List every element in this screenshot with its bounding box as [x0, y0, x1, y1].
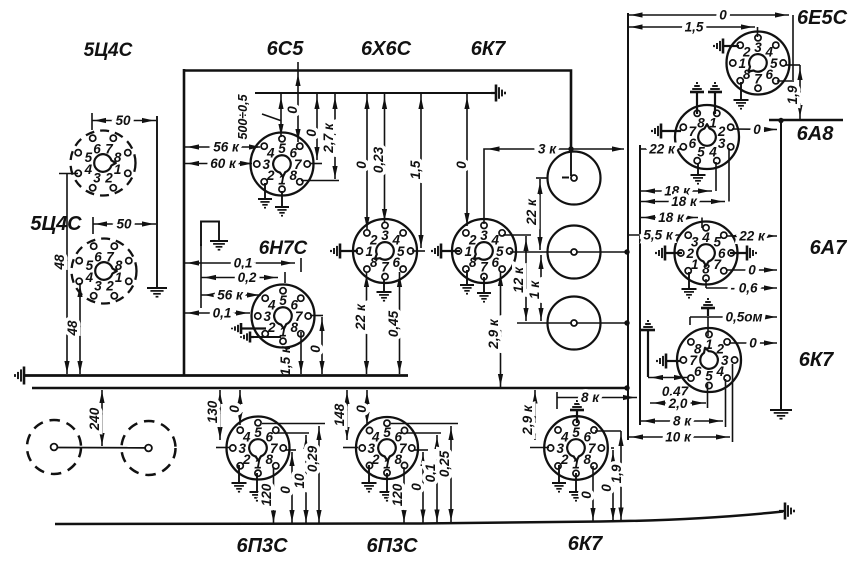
dimension 5,5к to 6А7 pin3: [628, 228, 681, 243]
ground chassis up at 6А8 pin8: [690, 83, 704, 114]
svg-text:56 к: 56 к: [217, 288, 244, 303]
ground below 6П3С2 pin2: [362, 465, 377, 492]
dimension 8к from 6К7 bottom: [557, 390, 637, 409]
dimension 240 lamp supply: [87, 390, 105, 446]
svg-text:1: 1: [278, 173, 286, 188]
svg-text:1,9: 1,9: [785, 85, 800, 104]
wire vertical bus A: [627, 13, 629, 440]
svg-text:3: 3: [381, 228, 389, 243]
dimension 18к to 6А8 pin3: [640, 148, 729, 209]
svg-text:10: 10: [292, 473, 307, 489]
label tube 5Ц4С top: [84, 40, 133, 61]
wire right vertical bus: [780, 120, 782, 409]
svg-text:5: 5: [85, 150, 93, 165]
tube socket 5Ц4С lower V2: [72, 239, 137, 304]
svg-text:1,5: 1,5: [408, 160, 423, 179]
ground chassis at 6К7 top pin1: [432, 244, 460, 259]
ground chassis at 6К7 right pin7: [657, 354, 681, 369]
svg-text:12 к: 12 к: [511, 266, 526, 293]
svg-text:6Х6С: 6Х6С: [361, 38, 412, 60]
svg-text:4: 4: [715, 364, 724, 379]
svg-text:0,2: 0,2: [238, 270, 257, 285]
svg-text:0: 0: [753, 122, 761, 137]
lamp dial circle right: [122, 421, 176, 475]
dimension 0 to 6П3С1 pin4: [227, 390, 243, 425]
svg-text:8: 8: [697, 115, 705, 130]
dimension 22к between lamp lines: [524, 178, 547, 250]
svg-text:0: 0: [308, 345, 323, 353]
dimension 22к from 6Х6С pin8: [353, 272, 369, 374]
ground chassis at 6Н7С pin2: [232, 323, 266, 334]
svg-text:4: 4: [266, 146, 275, 161]
ground below 6К7 top pin8: [460, 270, 474, 294]
ground chassis up at 6К7 bottom pin5: [570, 401, 584, 423]
dimension 1,5к from 6Н7С pin8: [278, 332, 304, 376]
dimension 18к to 6А7 pin4: [640, 210, 702, 228]
dimension 1,5 to 6Х6С pin5: [408, 93, 424, 248]
svg-text:60 к: 60 к: [210, 156, 237, 171]
dimension 0 from 6А7 pin7: [726, 263, 777, 278]
dimension 12к: [511, 236, 529, 321]
tube socket 5Ц4С upper V1: [71, 131, 136, 196]
svg-text:1,9: 1,9: [609, 464, 624, 483]
dimension 1к: [527, 255, 544, 321]
dimension 1,9 from 6К7 bottom pin6: [595, 431, 624, 521]
svg-text:1: 1: [705, 337, 713, 352]
junction dot L3 line at bus A: [624, 320, 629, 325]
wire left box edge: [183, 69, 186, 376]
svg-text:3: 3: [480, 228, 488, 243]
svg-text:5: 5: [254, 425, 262, 440]
svg-text:0: 0: [409, 483, 424, 491]
dimension 48 lower: [65, 283, 83, 374]
svg-text:0,25: 0,25: [437, 450, 452, 477]
dimension 2,0 to 6К7 right pin5: [650, 384, 708, 411]
wire pin4 stub of upper 5Ц4С: [59, 173, 78, 175]
wire second top bus line2: [255, 92, 492, 94]
svg-text:50: 50: [116, 217, 132, 232]
dimension 22к from 6А7 pin5: [726, 229, 777, 244]
dimension 148 to 6П3С2 pin3: [332, 390, 358, 448]
svg-text:0: 0: [749, 336, 757, 351]
svg-text:2: 2: [742, 45, 751, 60]
dimension 0 to 6К7 top pin2: [454, 93, 470, 226]
dimension 2,7к to 6С5 pin8: [301, 93, 339, 181]
dimension 0 to 6С5 pin6: [285, 70, 301, 142]
svg-text:4: 4: [371, 430, 380, 445]
dimension 10 from 6П3С1 pin6: [277, 433, 309, 523]
tube socket 6П3С second: [356, 417, 418, 479]
svg-text:4: 4: [267, 298, 276, 313]
label tube 6К7 right: [799, 349, 834, 371]
svg-text:8: 8: [469, 255, 477, 270]
dimension 10к to 6К7 right pin3: [628, 364, 733, 445]
junction dot right bus top: [778, 118, 783, 123]
svg-text:48: 48: [52, 254, 67, 271]
svg-text:48: 48: [65, 320, 80, 337]
tube socket 6К7 top: [452, 219, 516, 283]
svg-text:3: 3: [754, 40, 762, 55]
svg-text:5Ц4С: 5Ц4С: [30, 213, 82, 235]
svg-text:5,5 к: 5,5 к: [643, 228, 674, 243]
svg-text:8: 8: [115, 258, 123, 273]
svg-text:0,29: 0,29: [305, 445, 320, 472]
svg-text:6К7: 6К7: [471, 38, 506, 60]
svg-text:1: 1: [709, 115, 717, 130]
dimension 0 from 6П3С1 pin7: [278, 450, 296, 523]
dimension 0,45 from 6Х6С pin6: [386, 272, 402, 374]
tube socket 6Е5С: [727, 32, 790, 95]
dimension 0,23 to 6Х6С pin3: [371, 93, 387, 222]
svg-text:4: 4: [560, 430, 569, 445]
svg-text:2,9 к: 2,9 к: [486, 318, 501, 350]
svg-text:8: 8: [583, 452, 591, 467]
dimension 0 to 6С5 pin7: [304, 93, 322, 164]
ground hook top left of 6Н7С: [201, 222, 228, 250]
ground below 6С5 pin1: [275, 191, 289, 216]
svg-text:10 к: 10 к: [665, 430, 692, 445]
svg-text:6Н7С: 6Н7С: [259, 238, 308, 259]
svg-text:5Ц4С: 5Ц4С: [84, 40, 133, 61]
dimension 0 from 6П3С2 pin7: [409, 450, 428, 523]
svg-text:2,0: 2,0: [668, 396, 688, 411]
svg-text:1,5 к: 1,5 к: [278, 345, 293, 376]
svg-text:5: 5: [279, 293, 287, 308]
svg-text:0,23: 0,23: [371, 146, 386, 173]
dimension 0,1 to 6Н7С pin6: [184, 256, 301, 273]
dimension 0,29 from 6П3С1 pin5: [262, 424, 325, 524]
svg-text:0: 0: [278, 486, 293, 494]
dimension -0,6 from 6А7 pin8: [706, 279, 777, 296]
tube socket 6Х6С: [353, 219, 417, 283]
ground chassis up left of 6К7 right with riser: [641, 321, 655, 377]
svg-text:5: 5: [383, 425, 391, 440]
svg-text:6К7: 6К7: [799, 349, 834, 371]
svg-text:0,45: 0,45: [386, 310, 401, 337]
ground chassis at 6Е5С pin2: [714, 39, 739, 54]
svg-text:- 0,6: - 0,6: [730, 281, 758, 296]
svg-text:6: 6: [765, 67, 773, 82]
ground below 6К7 bottom pin2: [552, 465, 566, 492]
svg-text:0: 0: [354, 405, 369, 413]
svg-text:6П3С: 6П3С: [236, 535, 288, 557]
svg-text:0,1: 0,1: [423, 464, 438, 483]
svg-text:22 к: 22 к: [524, 198, 539, 226]
dimension 0 from 6А8 pin2: [732, 122, 777, 137]
dimension 0 to 6П3С2 pin4: [354, 390, 370, 425]
junction dot wire2 meets bus A: [624, 385, 629, 390]
svg-text:0: 0: [748, 263, 756, 278]
svg-text:4: 4: [708, 145, 717, 160]
ground below 6А7 pin1: [682, 272, 697, 298]
svg-text:0: 0: [579, 491, 594, 499]
svg-text:0,1: 0,1: [213, 306, 232, 321]
svg-text:1: 1: [254, 457, 262, 472]
svg-text:8: 8: [290, 320, 298, 335]
wire through lamp circle L3: [517, 322, 627, 324]
wire 6Х6С pin5 stub: [412, 250, 425, 252]
svg-text:8: 8: [743, 67, 751, 82]
svg-text:8: 8: [694, 342, 702, 357]
svg-text:500÷0,5: 500÷0,5: [236, 93, 250, 139]
wire reference line left of 6Н7С: [200, 244, 202, 308]
svg-text:120: 120: [390, 483, 405, 506]
ground chassis up at 6А8 pin1: [708, 83, 722, 114]
lamp circle L3: [548, 297, 601, 350]
tube socket 6П3С first: [227, 417, 290, 480]
tube socket 6К7 bottom: [544, 416, 608, 480]
wire top right horizontal at 6A8 level: [769, 119, 843, 122]
ground below 6Е5С pin8: [734, 82, 749, 109]
svg-text:0: 0: [285, 106, 300, 114]
dimension 48 upper: [52, 174, 70, 375]
svg-text:120: 120: [259, 483, 274, 506]
svg-text:6: 6: [392, 255, 400, 270]
svg-text:1: 1: [383, 457, 391, 472]
label tube 6К7 top: [471, 38, 506, 60]
svg-text:0: 0: [227, 405, 242, 413]
svg-text:5: 5: [572, 425, 580, 440]
dimension 8к to 6К7 right pin4: [640, 379, 726, 429]
svg-text:2: 2: [104, 171, 113, 186]
wire 6К7 pin3 riser and 3к line: [484, 142, 624, 225]
ground chassis at 6Х6С pin1: [331, 244, 358, 259]
wire between dial lamps: [57, 447, 145, 449]
wire through lamp circle L2: [510, 251, 627, 253]
svg-text:0: 0: [599, 484, 614, 492]
wire vertical bus B: [639, 145, 641, 425]
svg-text:3: 3: [691, 235, 699, 250]
svg-text:2,9 к: 2,9 к: [520, 404, 535, 436]
ground below 6К7 top pin7: [477, 277, 491, 302]
label tube 6П3С first: [236, 535, 288, 557]
wire filament reference vertical at x157: [156, 116, 158, 287]
lamp circle L2: [548, 226, 601, 279]
minus sign at L1: [562, 177, 569, 179]
svg-text:50: 50: [115, 113, 131, 128]
svg-text:1 к: 1 к: [527, 280, 542, 299]
dimension 56к to 6Н7С pin4: [201, 288, 261, 303]
svg-text:18 к: 18 к: [658, 210, 685, 225]
ground below 6К7 bottom pin1: [569, 473, 583, 501]
svg-text:6А7: 6А7: [810, 237, 848, 259]
svg-text:0,5ом: 0,5ом: [726, 310, 763, 325]
dimension 120 from 6П3С1 pin8: [259, 467, 276, 524]
svg-text:8: 8: [289, 168, 297, 183]
ground below 6С5 pin2: [258, 183, 272, 208]
dimension 22к to 6А8 pin6: [640, 142, 682, 157]
svg-text:6: 6: [491, 255, 499, 270]
dimension 2,9к from 6К7 top pin6: [486, 272, 503, 387]
svg-text:130: 130: [205, 400, 220, 423]
svg-text:6С5: 6С5: [267, 38, 305, 60]
dimension 1,9 from 6Е5С pin5: [785, 65, 803, 119]
svg-text:4: 4: [701, 230, 710, 245]
dimension 0 from 6Н7С pin7: [308, 316, 325, 375]
svg-text:22 к: 22 к: [738, 229, 766, 244]
ground chassis right end of line2: [491, 85, 505, 102]
svg-text:3: 3: [718, 136, 726, 151]
svg-text:6: 6: [93, 141, 101, 156]
label tube 5Ц4С left: [30, 213, 82, 235]
dimension 0 from 6К7 right pin2: [729, 336, 777, 351]
svg-text:3 к: 3 к: [538, 142, 557, 157]
ground below 6П3С1 pin1: [250, 473, 265, 501]
svg-text:22 к: 22 к: [648, 142, 676, 157]
svg-text:1: 1: [572, 457, 580, 472]
dimension 18к to 6А8 pin4: [640, 162, 716, 199]
dimension 0 to 6Х6С pin2: [354, 93, 370, 230]
ground below 6П3С1 pin2: [232, 465, 247, 492]
tube socket 6А8: [675, 105, 739, 169]
svg-text:18 к: 18 к: [671, 194, 698, 209]
ground below 6П3С2 pin1: [380, 473, 395, 501]
svg-text:148: 148: [332, 403, 347, 426]
ground below x157 line: [147, 288, 167, 297]
tube socket 6К7 right: [677, 328, 741, 392]
dimension 130 to 6П3С1 pin3: [205, 390, 230, 448]
ground below 6Х6С pin7: [377, 279, 392, 301]
svg-text:2,7 к: 2,7 к: [321, 122, 336, 154]
svg-text:8: 8: [394, 452, 402, 467]
wire top bus line1 with corner down to lamp circle L1: [184, 71, 571, 177]
wire bottom bus wire3: [55, 512, 783, 525]
dimension 0,25 from 6П3С2 pin5: [391, 424, 458, 523]
label tube 6К7 bottom: [568, 533, 603, 555]
ground chassis left end of wire1: [15, 367, 30, 385]
dimension 2,9к to 6К7 bottom pin3: [520, 390, 549, 448]
svg-text:6К7: 6К7: [568, 533, 603, 555]
tube socket 6А7: [675, 222, 738, 285]
dimension 0,47 to 6К7 right pin6: [648, 375, 690, 399]
svg-text:2: 2: [369, 233, 378, 248]
svg-text:5: 5: [86, 258, 94, 273]
label tube 6А8: [797, 123, 835, 145]
dimension 56к to 6С5 pin4: [184, 140, 261, 155]
svg-text:0: 0: [304, 129, 319, 137]
svg-text:6П3С: 6П3С: [366, 535, 418, 557]
svg-text:5: 5: [697, 145, 705, 160]
ground chassis at 6А7 pin2: [656, 246, 682, 261]
ground chassis at 6А7 pin6: [730, 246, 756, 261]
svg-text:8 к: 8 к: [673, 414, 692, 429]
svg-text:1,5: 1,5: [685, 20, 704, 35]
svg-text:8: 8: [265, 452, 273, 467]
svg-text:3: 3: [93, 171, 101, 186]
label tube 6Н7С: [259, 238, 308, 259]
svg-text:8 к: 8 к: [581, 390, 600, 405]
dimension 50 lower: [93, 217, 156, 235]
tube socket 6Н7С: [252, 285, 315, 348]
svg-text:22 к: 22 к: [353, 303, 368, 331]
ground chassis at 6А8 pin7: [652, 124, 681, 139]
ground below right vertical bus: [770, 410, 792, 419]
ground below 6А8 pin5: [691, 163, 706, 184]
label tube 6Х6С: [361, 38, 412, 60]
svg-text:0: 0: [354, 161, 369, 169]
dimension 0,2 to 6Н7С pin5: [201, 270, 285, 285]
wire 6К7 pin4 stub: [503, 234, 531, 236]
dimension 1,5 to 6Е5С pin3: [628, 20, 758, 38]
svg-text:0: 0: [454, 161, 469, 169]
svg-text:5: 5: [278, 141, 286, 156]
svg-text:6А8: 6А8: [797, 123, 835, 145]
ground chassis at 6Н7С pin1: [241, 332, 281, 343]
svg-text:3: 3: [94, 279, 102, 294]
dimension 0,1 to 6Н7С pin3: [184, 306, 250, 321]
svg-text:4: 4: [242, 430, 251, 445]
junction dot 3к line at lamp riser: [568, 146, 573, 151]
dimension 0 from 6К7 bottom pin8: [579, 466, 596, 521]
junction dot L2 line at bus A: [624, 249, 629, 254]
lamp circle L1 anode: [548, 152, 601, 205]
svg-text:2: 2: [468, 233, 477, 248]
svg-text:6Е5С: 6Е5С: [797, 7, 848, 29]
svg-text:2: 2: [105, 279, 114, 294]
svg-text:0,1: 0,1: [234, 256, 253, 271]
svg-text:8: 8: [702, 262, 710, 277]
dimension 0 from 6К7 bottom pin7: [599, 448, 616, 521]
dimension 500-0,5 to 6С5 pin5: [236, 93, 284, 140]
svg-text:1: 1: [691, 257, 699, 272]
wire main bus wire1: [25, 374, 408, 377]
label tube 6А7: [810, 237, 848, 259]
svg-text:8: 8: [370, 255, 378, 270]
label tube 6П3С second: [366, 535, 418, 557]
ground chassis right end of wire3: [779, 503, 794, 520]
dimension 0 to 6Е5С pin6 line: [628, 8, 794, 82]
tube socket 6С5: [251, 133, 314, 196]
wire tick above top bus at 6С5: [297, 62, 299, 70]
label tube 6Е5С: [797, 7, 848, 29]
svg-text:240: 240: [87, 407, 102, 431]
label tube 6С5: [267, 38, 305, 60]
wire main bus wire2: [32, 387, 628, 389]
wire 6К7 right pin1 riser and 0,5ом line: [690, 310, 777, 337]
ground chassis up on 0,5ом line: [701, 299, 715, 316]
svg-text:5: 5: [705, 369, 713, 384]
svg-text:56 к: 56 к: [213, 140, 240, 155]
svg-text:6: 6: [94, 249, 102, 264]
dimension 60к to 6С5 pin3: [184, 156, 252, 171]
dimension 50 upper: [92, 113, 156, 130]
dimension 0,1 from 6П3С2 pin6: [406, 433, 441, 523]
svg-text:8: 8: [114, 150, 122, 165]
svg-text:0: 0: [719, 8, 727, 23]
lamp dial circle left: [27, 420, 81, 474]
dimension 120 from 6П3С2 pin8: [390, 467, 407, 523]
